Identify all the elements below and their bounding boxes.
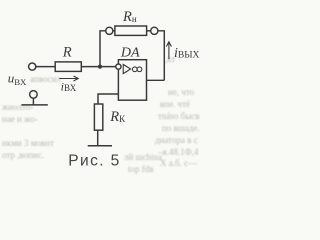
svg-text:апвосил: апвосил xyxy=(30,74,61,84)
resistor R_H xyxy=(115,26,147,35)
resistor R_K xyxy=(94,104,102,130)
wire: non-inverting input xyxy=(98,94,118,104)
svg-text:тnásо бысв: тnásо бысв xyxy=(158,111,200,121)
svg-text:top fdв: top fdв xyxy=(128,164,154,174)
wire: R_H right terminal down to op-amp output xyxy=(158,31,164,81)
infinity symbol in op-amp xyxy=(132,67,137,72)
svg-text:диатора в с: диатора в с xyxy=(155,135,198,145)
svg-text:Рис. 5: Рис. 5 xyxy=(68,153,120,170)
input terminal (upper left) xyxy=(29,63,36,70)
resistor R xyxy=(55,62,81,72)
wire: R_K to ground xyxy=(97,130,99,146)
op-amp triangle symbol xyxy=(123,64,130,73)
terminal circle (R_H left) xyxy=(106,27,113,34)
schematic xyxy=(21,26,171,146)
ground bar under R_K xyxy=(88,145,112,147)
faint bleed-through text (back of page) xyxy=(1,54,200,174)
wire: lower terminal stem xyxy=(32,98,34,105)
wire: op-amp output xyxy=(147,79,165,81)
svg-text:лй шchina: лй шchina xyxy=(124,152,162,162)
svg-text:–я.48.1Ф,4: –я.48.1Ф,4 xyxy=(157,147,199,157)
op-amp U1 box xyxy=(118,60,146,100)
svg-text:отр ,вопис.: отр ,вопис. xyxy=(2,150,44,160)
svg-text:нкми 3 мовнт: нкми 3 мовнт xyxy=(2,138,54,148)
paper background xyxy=(0,0,210,176)
wire: resistor R to op-amp input xyxy=(81,66,116,68)
wire: feedback vertical up xyxy=(100,31,106,67)
svg-text:по вшаде.: по вшаде. xyxy=(162,123,200,133)
svg-text:нае и жо-: нае и жо- xyxy=(2,114,38,124)
wire xyxy=(147,30,151,32)
svg-text:ие, что: ие, что xyxy=(168,87,195,97)
wire: input terminal to resistor R xyxy=(36,66,55,68)
terminal circle (R_H right) xyxy=(151,27,158,34)
svg-text:Х а.б. с—: Х а.б. с— xyxy=(160,158,198,168)
lower input terminal xyxy=(30,91,38,99)
current arrow i_vyx xyxy=(166,42,171,59)
current arrow i_vx xyxy=(59,76,78,81)
common bar under lower terminal xyxy=(21,104,47,106)
svg-text:впе. чтё: впе. чтё xyxy=(160,99,190,109)
inverting input circle on op-amp xyxy=(116,64,121,69)
svg-text:DA: DA xyxy=(120,46,140,61)
node A (junction dot) xyxy=(98,65,102,69)
svg-text:жиолто-: жиолто- xyxy=(1,102,33,112)
svg-text:R: R xyxy=(62,44,72,60)
wire xyxy=(113,30,115,32)
